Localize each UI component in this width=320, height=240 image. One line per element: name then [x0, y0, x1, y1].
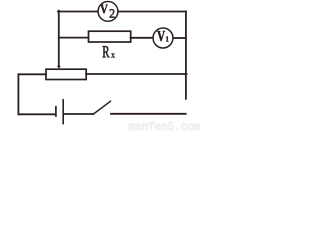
wire bottom-right horizontal	[111, 113, 186, 115]
wire battery to switch	[64, 113, 93, 115]
wire middle horizontal to Rx	[59, 37, 89, 39]
wire bottom-left horizontal	[18, 113, 55, 115]
battery positive plate	[62, 99, 64, 124]
wire left-mid vertical (wiper lead)	[58, 11, 60, 66]
wire Rx to V1	[131, 37, 153, 39]
label V1	[157, 31, 165, 41]
wire top-left horizontal	[58, 11, 98, 13]
wire rheostat right	[86, 73, 186, 75]
watermark manfen5.com	[129, 122, 200, 130]
resistor Rx box	[89, 31, 131, 42]
wire right vertical	[185, 12, 187, 99]
wire left vertical	[17, 74, 19, 114]
battery negative plate	[55, 106, 57, 117]
label V2	[100, 5, 107, 14]
wire rheostat left	[18, 73, 46, 75]
wire V1 to right vertical	[173, 37, 186, 39]
label Rx	[103, 46, 110, 57]
voltmeter V1	[153, 28, 173, 48]
voltmeter V2	[98, 2, 118, 22]
wire top-right horizontal	[118, 11, 186, 13]
switch S blade	[93, 101, 111, 114]
rheostat (slide resistor)	[46, 69, 86, 79]
rheostat wiper arrowhead	[57, 66, 61, 69]
